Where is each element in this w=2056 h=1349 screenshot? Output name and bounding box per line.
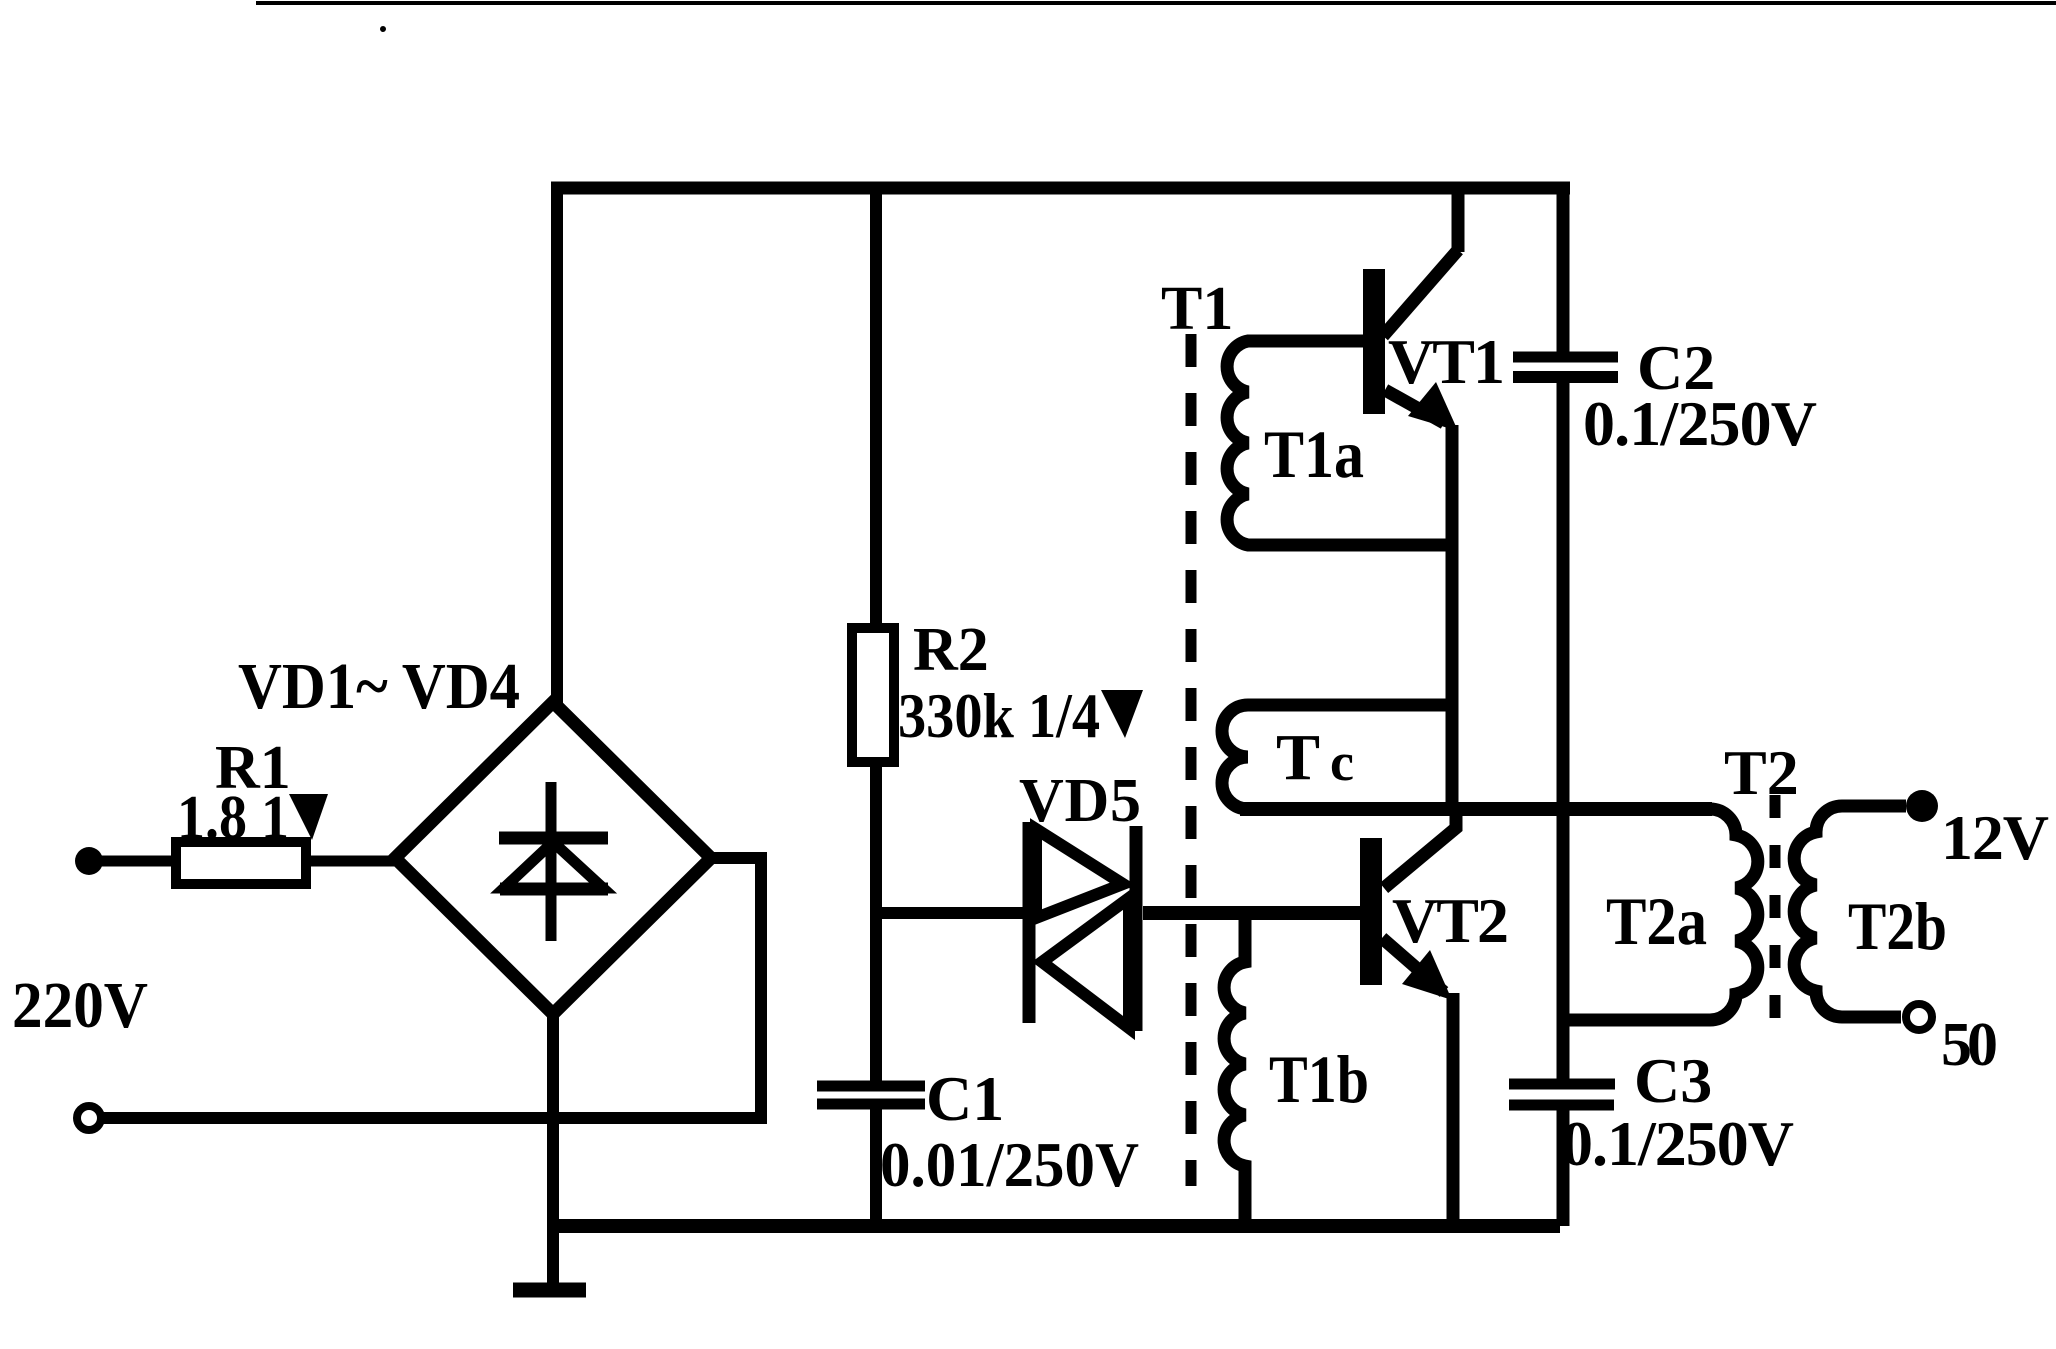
wire C1 to bottom rail <box>870 1109 882 1226</box>
wire bottom rail <box>553 1219 1560 1233</box>
svg-text:T1: T1 <box>1161 275 1233 343</box>
wire neutral to bridge right vertex <box>103 858 761 1118</box>
winding T2a <box>1565 809 1758 1020</box>
diac VD5 <box>1023 822 1036 1023</box>
svg-text:C3: C3 <box>1634 1045 1712 1116</box>
winding Tc <box>1222 705 1452 809</box>
svg-text:R2: R2 <box>913 616 989 684</box>
node 220V neutral terminal <box>77 1106 101 1130</box>
wire bridge bottom to ground <box>547 1014 559 1288</box>
wire top rail <box>551 182 1570 195</box>
capacitor C1 <box>817 1081 925 1092</box>
capacitor C2 <box>1513 352 1618 363</box>
page border line <box>256 1 2056 5</box>
svg-text:330k 1/4: 330k 1/4 <box>898 680 1100 751</box>
winding T1a <box>1227 341 1452 545</box>
wire R1 to bridge <box>306 856 397 867</box>
transformer T1 core dashed line <box>1186 334 1197 1186</box>
svg-text:T1b: T1b <box>1269 1041 1369 1117</box>
svg-text:0.01/250V: 0.01/250V <box>880 1129 1139 1200</box>
svg-text:T: T <box>1276 721 1320 794</box>
transistor VT1 <box>1452 182 1465 252</box>
svg-text:12V: 12V <box>1941 802 2049 873</box>
transformer T2 core dashed line <box>1770 795 1781 1025</box>
svg-text:T2: T2 <box>1724 737 1799 808</box>
bridge rectifier VD1~VD4 <box>395 702 711 1014</box>
svg-text:50: 50 <box>1941 1011 1998 1079</box>
wire left vertical to bridge <box>551 182 563 706</box>
resistor R1 <box>176 842 306 884</box>
node 220V live terminal <box>75 847 103 875</box>
wire top rail to R2 <box>870 182 882 628</box>
svg-text:220V: 220V <box>12 969 148 1042</box>
winding T1b <box>1224 913 1245 1226</box>
svg-text:T2a: T2a <box>1606 883 1707 959</box>
svg-text:T2b: T2b <box>1848 888 1947 964</box>
ground <box>513 1283 586 1298</box>
resistor R2 <box>852 628 894 762</box>
wire half-bridge node <box>1240 802 1712 816</box>
svg-text:C1: C1 <box>926 1063 1004 1134</box>
svg-text:VT1: VT1 <box>1388 326 1505 397</box>
node 50 terminal <box>1906 1004 1932 1030</box>
svg-text:T1a: T1a <box>1264 416 1364 492</box>
wire VD5 to VT2 base <box>1143 906 1360 920</box>
transistor VT2 <box>1384 813 1456 888</box>
svg-text:c: c <box>1330 732 1354 792</box>
svg-text:1.8 1: 1.8 1 <box>177 784 289 852</box>
wire R2 to C1 <box>870 762 882 1081</box>
capacitor C3 <box>1509 1079 1615 1090</box>
svg-text:0.1/250V: 0.1/250V <box>1561 1108 1794 1179</box>
svg-text:VD1~ VD4: VD1~ VD4 <box>238 650 520 723</box>
svg-text:0.1/250V: 0.1/250V <box>1583 388 1817 459</box>
node 12V terminal <box>1906 790 1938 822</box>
wire live terminal to R1 <box>100 856 178 867</box>
svg-text:VT2: VT2 <box>1392 885 1509 956</box>
winding T2b <box>1794 806 1906 1017</box>
svg-text:VD5: VD5 <box>1019 767 1141 835</box>
wire R2 node to VD5 <box>876 907 1024 919</box>
